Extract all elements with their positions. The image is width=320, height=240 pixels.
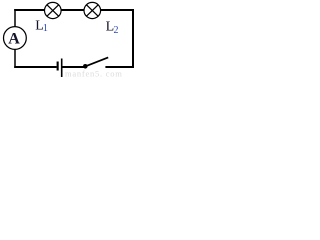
ammeter A1 circle <box>4 27 27 50</box>
wire left vertical lower <box>14 50 16 69</box>
wire top-right segment <box>100 9 134 11</box>
svg-text:manfen5. com: manfen5. com <box>65 68 123 77</box>
lamp L2 cross stroke 2 <box>86 5 98 17</box>
battery negative short plate <box>57 62 59 71</box>
switch blade <box>86 57 109 66</box>
wire left vertical upper <box>14 9 16 27</box>
lamp L1 cross stroke 2 <box>47 5 59 17</box>
battery positive long plate <box>61 59 63 78</box>
wire bottom-left segment <box>14 66 57 68</box>
lamp L2 cross stroke 1 <box>86 5 98 17</box>
svg-text:A: A <box>8 31 20 48</box>
lamp L2 circle <box>84 2 101 18</box>
switch pivot dot <box>83 64 88 69</box>
wire top-left segment <box>14 9 44 11</box>
lamp L1 cross stroke 1 <box>47 5 59 17</box>
svg-text:2: 2 <box>114 25 119 36</box>
wire bottom-right segment <box>105 66 134 68</box>
wire bottom middle segment battery to switch <box>62 66 84 68</box>
svg-text:1: 1 <box>43 23 48 34</box>
wire top middle segment between lamps <box>61 9 84 11</box>
wire right vertical <box>132 9 134 68</box>
lamp L1 circle <box>45 2 62 18</box>
